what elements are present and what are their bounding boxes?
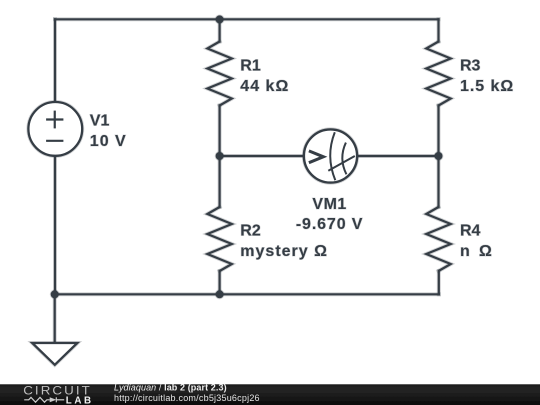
svg-text:n Ω: n Ω <box>460 243 494 260</box>
svg-text:R4: R4 <box>460 223 481 240</box>
svg-text:VM1: VM1 <box>312 196 346 213</box>
svg-text:Lydiaquan / lab 2 (part 2.3): Lydiaquan / lab 2 (part 2.3) <box>114 382 227 392</box>
svg-text:10 V: 10 V <box>90 133 127 150</box>
svg-text:1.5 kΩ: 1.5 kΩ <box>460 78 514 95</box>
svg-text:R1: R1 <box>240 57 261 74</box>
svg-text:R2: R2 <box>240 223 261 240</box>
svg-text:-9.670 V: -9.670 V <box>296 216 364 233</box>
svg-text:http://circuitlab.com/cb5j35u6: http://circuitlab.com/cb5j35u6cpj26 <box>114 393 260 403</box>
svg-text:mystery Ω: mystery Ω <box>240 243 328 260</box>
svg-text:44 kΩ: 44 kΩ <box>240 78 289 95</box>
svg-text:V1: V1 <box>90 113 110 130</box>
svg-text:LAB: LAB <box>66 396 94 405</box>
svg-text:R3: R3 <box>460 57 481 74</box>
